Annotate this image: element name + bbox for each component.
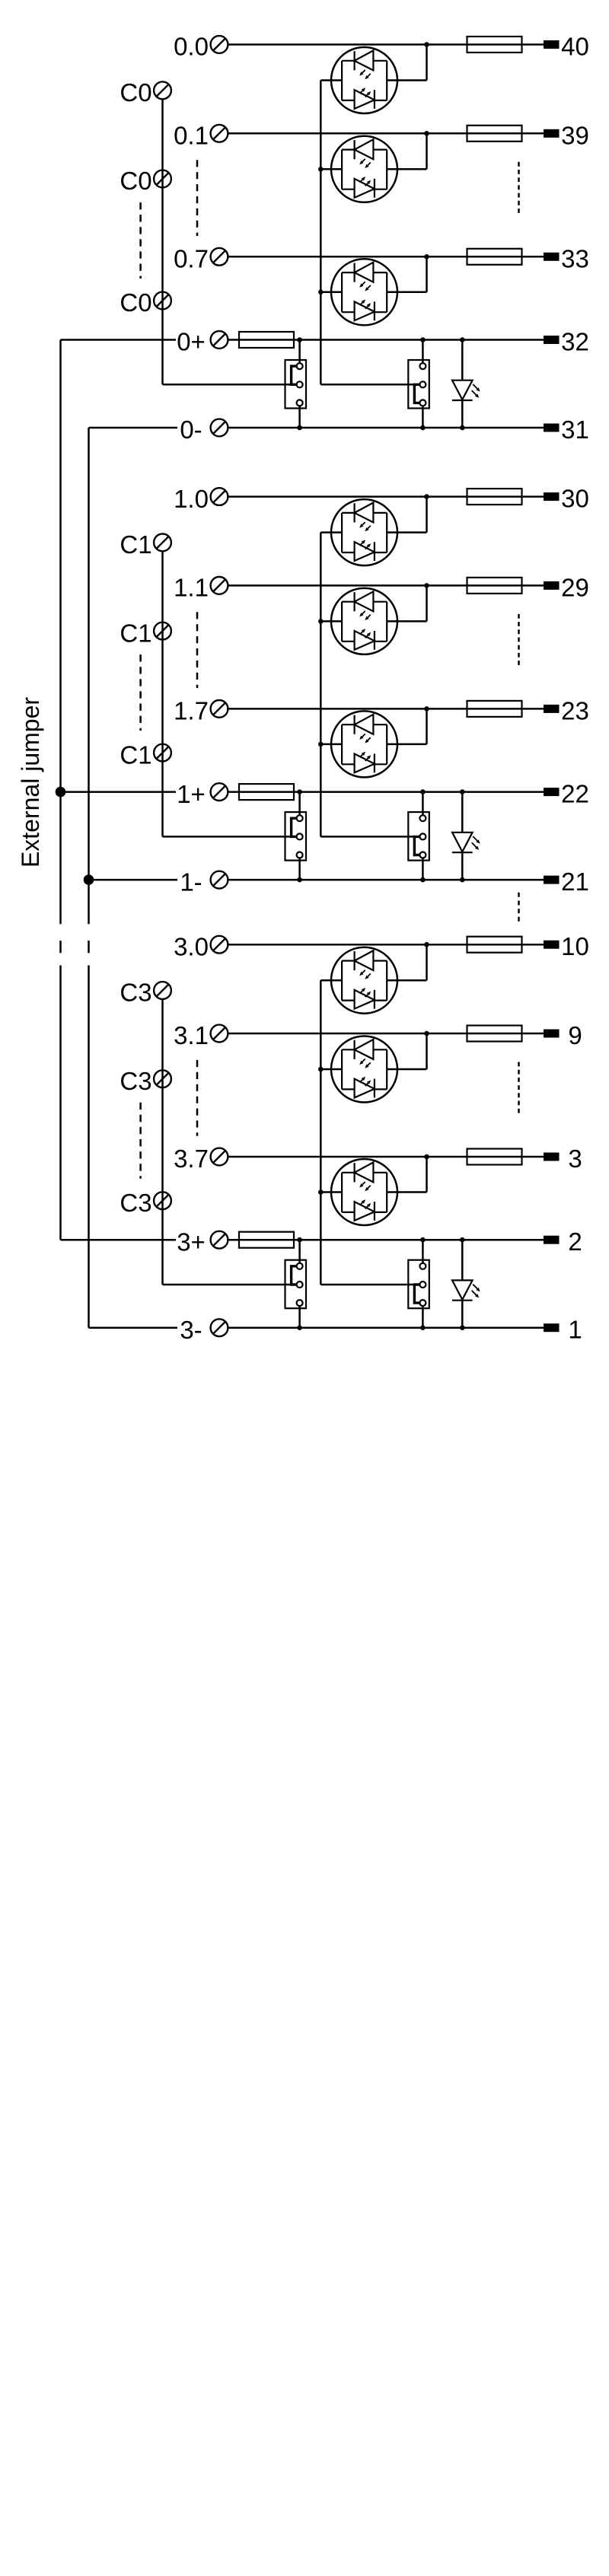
terminal C1 #1 [154, 534, 171, 552]
fuse on 1+ supply [239, 784, 294, 800]
wire opto bus group 1 vertical [320, 533, 322, 837]
switch S3b (jumper selector) [408, 1260, 429, 1309]
wire optocoupler 0.7 left lead [320, 291, 342, 294]
wire drop to optocoupler 3.1 [426, 1033, 428, 1069]
svg-text:3.1: 3.1 [174, 1021, 209, 1049]
svg-text:30: 30 [561, 485, 589, 513]
wire 1.0 row to terminal 30 [228, 495, 544, 498]
svg-text:3.7: 3.7 [174, 1145, 209, 1173]
wire switch 1 top pin to + row [298, 1240, 301, 1266]
svg-text:33: 33 [561, 244, 589, 272]
dashed ellipsis fuse column group 3 [518, 1062, 520, 1114]
wire optocoupler 1.0 left lead [320, 531, 342, 533]
wire switch 2 bottom pin to - row [422, 1303, 424, 1328]
svg-text:C1: C1 [120, 530, 151, 559]
terminal 1.1 (screw clamp) [211, 577, 228, 594]
wire 3.7 row to terminal 3 [228, 1156, 544, 1158]
fuse on channel 1.7 (terminal 23) [467, 701, 522, 717]
optocoupler U37 (anti-parallel LED input) [331, 1159, 397, 1225]
wire C0 bus vertical [161, 99, 164, 384]
junction opto bus / 3.1 [318, 1067, 324, 1072]
wire optocoupler 3.0 right lead [387, 979, 426, 982]
fuse on channel 0.7 (terminal 33) [467, 249, 522, 265]
svg-text:C1: C1 [120, 619, 151, 647]
optocoupler U10 (anti-parallel LED input) [331, 499, 397, 565]
wire switch 1 bottom pin to - row [298, 403, 301, 428]
wire external jumper + (break to 3+) [59, 966, 62, 1240]
wire 1+ row from external jumper [61, 791, 177, 793]
terminal 0- (screw clamp) [211, 419, 228, 437]
junction node on 3.1 row [424, 1031, 429, 1036]
svg-text:3.0: 3.0 [174, 932, 209, 960]
svg-text:C3: C3 [120, 1189, 151, 1217]
svg-text:0+: 0+ [177, 328, 206, 356]
junction 1+ / switch 2 [420, 789, 426, 794]
terminal block 9 [544, 1030, 560, 1038]
wire 1.1 row to terminal 29 [228, 584, 544, 587]
fuse on channel 1.1 (terminal 29) [467, 578, 522, 594]
svg-text:C3: C3 [120, 979, 151, 1007]
wire 1+ row to terminal 22 [228, 791, 544, 793]
svg-text:0.1: 0.1 [174, 122, 209, 150]
terminal block 40 [544, 40, 560, 49]
svg-text:1.0: 1.0 [174, 485, 209, 513]
terminal block 32 [544, 336, 560, 344]
terminal block 21 [544, 876, 560, 884]
wire drop to optocoupler 1.7 [426, 708, 428, 744]
junction 3- / switch 2 [420, 1325, 426, 1330]
wire 3- row to terminal 1 [228, 1326, 544, 1329]
terminal block 2 [544, 1236, 560, 1244]
wire 3.0 row to terminal 10 [228, 944, 544, 946]
fuse on 3+ supply [239, 1232, 294, 1248]
junction 3+ / switch 1 [297, 1237, 302, 1243]
junction opto bus / 3.7 [318, 1189, 324, 1195]
junction 0+ / switch 2 [420, 337, 426, 342]
dashed ellipsis channels 1.2-1.6 [196, 612, 199, 688]
junction 3+ / LED [460, 1237, 465, 1243]
terminal C3 #2 [154, 1070, 171, 1087]
svg-text:32: 32 [561, 328, 589, 356]
terminal block 30 [544, 492, 560, 501]
switch S3a (jumper selector) [285, 1260, 307, 1309]
wire opto bus group 0 to switch 2 middle pin [320, 384, 422, 386]
junction 1- / LED [460, 877, 465, 883]
dashed ellipsis channels 3.2-3.6 [196, 1060, 199, 1136]
junction node on 0.7 row [424, 254, 429, 260]
wire 3- row from external jumper [89, 1326, 178, 1329]
junction 3- / switch 1 [297, 1325, 302, 1330]
dashed ellipsis channels 0.2-0.6 [196, 160, 199, 236]
wire switch 1 bottom pin to - row [298, 1303, 301, 1328]
wire 1.7 row to terminal 23 [228, 708, 544, 710]
junction node on 1.1 row [424, 583, 429, 588]
wire external jumper - (0- to break) [88, 428, 90, 924]
wire optocoupler 1.1 right lead [387, 620, 426, 623]
terminal block 29 [544, 581, 560, 590]
terminal 3+ (screw clamp) [211, 1231, 228, 1249]
junction node external jumper - / 1- [84, 874, 94, 885]
junction 1- / switch 1 [297, 877, 302, 883]
svg-text:C3: C3 [120, 1067, 151, 1095]
dashed ellipsis C0 terminals [139, 202, 142, 279]
junction node on 3.0 row [424, 942, 429, 947]
optocoupler U11 (anti-parallel LED input) [331, 588, 397, 654]
wire 3+ row from external jumper [61, 1239, 177, 1241]
terminal 3- (screw clamp) [211, 1319, 228, 1336]
terminal block 1 [544, 1323, 560, 1332]
wire drop to optocoupler 0.7 [426, 256, 428, 292]
svg-text:22: 22 [561, 780, 589, 808]
junction opto bus / 1.1 [318, 619, 324, 624]
svg-text:C0: C0 [120, 78, 151, 107]
wire C0 bus to switch 1 middle pin [163, 384, 300, 386]
wire drop to optocoupler 0.0 [426, 45, 428, 81]
svg-text:39: 39 [561, 121, 589, 149]
svg-text:40: 40 [561, 33, 589, 61]
terminal block 31 [544, 424, 560, 432]
wire external jumper + break dash [59, 941, 62, 953]
junction node on 3.7 row [424, 1154, 429, 1160]
wire 0.7 row to terminal 33 [228, 256, 544, 258]
switch S0a (jumper selector) [285, 360, 307, 409]
svg-text:10: 10 [561, 932, 589, 960]
terminal 3.0 (screw clamp) [211, 936, 228, 954]
terminal 1.0 (screw clamp) [211, 488, 228, 505]
dashed ellipsis fuse column group 0 [518, 162, 520, 214]
junction opto bus / 1.7 [318, 742, 324, 747]
junction opto bus / 0.7 [318, 290, 324, 295]
junction node on 0.0 row [424, 42, 429, 47]
terminal block 22 [544, 788, 560, 796]
fuse on channel 0.1 (terminal 39) [467, 126, 522, 142]
dashed ellipsis C3 terminals [139, 1103, 142, 1179]
wire external jumper - break dash [88, 941, 90, 953]
fuse on channel 1.0 (terminal 30) [467, 489, 522, 505]
svg-text:23: 23 [561, 696, 589, 724]
switch S1b (jumper selector) [408, 812, 429, 861]
junction 0- / LED [460, 425, 465, 431]
wire drop to optocoupler 3.7 [426, 1157, 428, 1192]
wire optocoupler 3.1 right lead [387, 1068, 426, 1071]
terminal 3.1 (screw clamp) [211, 1025, 228, 1043]
svg-text:9: 9 [568, 1021, 582, 1049]
wire 0.1 row to terminal 39 [228, 132, 544, 135]
svg-text:3+: 3+ [177, 1228, 206, 1256]
svg-text:1+: 1+ [177, 780, 206, 808]
wire 1- row from external jumper [89, 879, 178, 881]
svg-text:29: 29 [561, 573, 589, 601]
wire drop to optocoupler 1.1 [426, 585, 428, 621]
optocoupler U17 (anti-parallel LED input) [331, 711, 397, 777]
terminal 0+ (screw clamp) [211, 331, 228, 349]
wire drop to optocoupler 1.0 [426, 497, 428, 533]
wire C1 bus to switch 1 middle pin [163, 836, 300, 838]
terminal 0.7 (screw clamp) [211, 248, 228, 266]
wire optocoupler 3.7 right lead [387, 1191, 426, 1193]
wire optocoupler 0.1 left lead [320, 168, 342, 170]
terminal 0.0 (screw clamp) [211, 36, 228, 53]
optocoupler U31 (anti-parallel LED input) [331, 1036, 397, 1103]
terminal 0.1 (screw clamp) [211, 125, 228, 142]
wire C3 bus to switch 1 middle pin [163, 1284, 300, 1286]
wire optocoupler 3.0 left lead [320, 979, 342, 982]
fuse on channel 3.7 (terminal 3) [467, 1149, 522, 1165]
wire switch 1 top pin to + row [298, 340, 301, 367]
wire switch 2 top pin to + row [422, 1240, 424, 1266]
terminal 1+ (screw clamp) [211, 783, 228, 801]
terminal block 39 [544, 129, 560, 138]
svg-text:0.0: 0.0 [174, 33, 209, 61]
wire 3+ row to terminal 2 [228, 1239, 544, 1241]
svg-text:21: 21 [561, 868, 589, 896]
svg-text:C0: C0 [120, 288, 151, 317]
wire external jumper + (0+ to break) [59, 340, 62, 925]
junction node external jumper + / 1+ [56, 787, 66, 798]
terminal C0 #3 [154, 292, 171, 310]
wire switch 1 bottom pin to - row [298, 855, 301, 880]
wire opto bus group 3 to switch 2 middle pin [320, 1284, 422, 1286]
wire optocoupler 1.1 left lead [320, 620, 342, 623]
terminal 1.7 (screw clamp) [211, 700, 228, 718]
wire optocoupler 0.0 right lead [387, 79, 426, 81]
wire external jumper - (break to 3-) [88, 966, 90, 1328]
wire opto bus group 0 vertical [320, 81, 322, 385]
wire drop to optocoupler 0.1 [426, 133, 428, 169]
wire C3 bus vertical [161, 999, 164, 1285]
wire C1 bus vertical [161, 551, 164, 836]
junction 3- / LED [460, 1325, 465, 1330]
terminal C3 #1 [154, 982, 171, 999]
fuse on channel 0.0 (terminal 40) [467, 37, 522, 53]
wire optocoupler 1.0 right lead [387, 531, 426, 533]
terminal 1- (screw clamp) [211, 871, 228, 889]
wire switch 1 top pin to + row [298, 792, 301, 819]
svg-text:C0: C0 [120, 167, 151, 195]
wire 3.1 row to terminal 9 [228, 1033, 544, 1035]
wire opto bus group 3 vertical [320, 980, 322, 1285]
dashed ellipsis fuse column group 1 [518, 614, 520, 666]
wire switch 2 top pin to + row [422, 792, 424, 819]
svg-text:1-: 1- [180, 868, 202, 896]
terminal 3.7 (screw clamp) [211, 1148, 228, 1166]
wire 0- row to terminal 31 [228, 427, 544, 429]
wire 0.0 row to terminal 40 [228, 43, 544, 46]
terminal block 3 [544, 1153, 560, 1161]
svg-text:1: 1 [568, 1316, 582, 1344]
fuse on channel 3.1 (terminal 9) [467, 1026, 522, 1042]
terminal block 23 [544, 705, 560, 713]
wire optocoupler 3.7 left lead [320, 1191, 342, 1193]
LED emission arrows group 0 [472, 384, 480, 398]
terminal C1 #2 [154, 623, 171, 640]
svg-text:C1: C1 [120, 740, 151, 769]
junction 3+ / switch 2 [420, 1237, 426, 1243]
svg-text:31: 31 [561, 416, 589, 444]
wire switch 2 bottom pin to - row [422, 403, 424, 428]
junction node on 1.7 row [424, 706, 429, 712]
junction node on 0.1 row [424, 131, 429, 136]
junction 0+ / switch 1 [297, 337, 302, 342]
terminal block 33 [544, 253, 560, 261]
junction 0+ / LED [460, 337, 465, 342]
fuse on 0+ supply [239, 332, 294, 348]
wire 0+ row from external jumper [61, 339, 177, 341]
junction 0- / switch 1 [297, 425, 302, 431]
junction 1- / switch 2 [420, 877, 426, 883]
wire 0- row from external jumper [89, 427, 178, 429]
LED emission arrows group 3 [472, 1285, 480, 1298]
wire optocoupler 0.1 right lead [387, 168, 426, 170]
wire switch 2 top pin to + row [422, 340, 424, 367]
LED emission arrows group 1 [472, 836, 480, 850]
dashed ellipsis groups 1-3 terminal column [518, 893, 520, 922]
optocoupler U07 (anti-parallel LED input) [331, 259, 397, 325]
wire optocoupler 0.0 left lead [320, 79, 342, 81]
optocoupler U00 (anti-parallel LED input) [331, 47, 397, 113]
svg-text:2: 2 [568, 1228, 582, 1256]
svg-text:External jumper: External jumper [17, 697, 44, 868]
terminal C1 #3 [154, 744, 171, 762]
optocoupler U01 (anti-parallel LED input) [331, 136, 397, 202]
junction 1+ / switch 1 [297, 789, 302, 794]
LED status indicator group 3 [452, 1240, 473, 1328]
terminal C0 #2 [154, 170, 171, 188]
terminal block 10 [544, 941, 560, 949]
switch S0b (jumper selector) [408, 360, 429, 409]
svg-text:0-: 0- [180, 416, 202, 444]
optocoupler U30 (anti-parallel LED input) [331, 947, 397, 1014]
junction 0- / switch 2 [420, 425, 426, 431]
terminal C3 #3 [154, 1192, 171, 1209]
wire optocoupler 1.7 left lead [320, 744, 342, 746]
wire switch 2 bottom pin to - row [422, 855, 424, 880]
wire optocoupler 0.7 right lead [387, 291, 426, 294]
switch S1a (jumper selector) [285, 812, 307, 861]
junction 1+ / LED [460, 789, 465, 794]
LED status indicator group 0 [452, 340, 473, 428]
dashed ellipsis C1 terminals [139, 654, 142, 731]
wire optocoupler 1.7 right lead [387, 744, 426, 746]
wire 0+ row to terminal 32 [228, 339, 544, 341]
wire opto bus group 1 to switch 2 middle pin [320, 836, 422, 838]
junction node on 1.0 row [424, 494, 429, 499]
svg-text:0.7: 0.7 [174, 245, 209, 273]
LED status indicator group 1 [452, 792, 473, 880]
terminal C0 #1 [154, 81, 171, 99]
wire optocoupler 3.1 left lead [320, 1068, 342, 1071]
svg-text:3-: 3- [180, 1316, 202, 1344]
wire drop to optocoupler 3.0 [426, 944, 428, 980]
svg-text:3: 3 [568, 1145, 582, 1173]
svg-text:1.1: 1.1 [174, 574, 209, 602]
junction opto bus / 0.1 [318, 167, 324, 172]
svg-text:1.7: 1.7 [174, 697, 209, 725]
wire 1- row to terminal 21 [228, 879, 544, 881]
fuse on channel 3.0 (terminal 10) [467, 937, 522, 953]
